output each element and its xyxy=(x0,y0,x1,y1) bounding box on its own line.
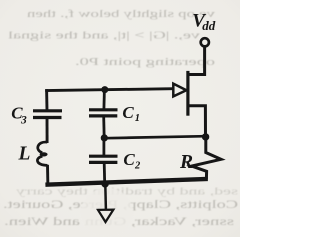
svg-text:C: C xyxy=(122,103,134,122)
node dot top (gate / C1 / C3) xyxy=(101,86,108,93)
wire L to bottom xyxy=(46,165,49,187)
wire bottom (ground net) xyxy=(45,179,207,185)
svg-text:operating point P0.: operating point P0. xyxy=(75,56,215,68)
svg-text:3: 3 xyxy=(20,114,27,126)
capacitor C1 xyxy=(89,110,118,116)
node dot bottom (ground net) xyxy=(101,180,108,187)
svg-text:C: C xyxy=(123,150,135,169)
svg-text:L: L xyxy=(18,143,31,164)
resistor R xyxy=(192,140,221,180)
svg-text:ve op slightly below f,. then: ve op slightly below f,. then xyxy=(26,8,215,20)
node dot right (source / R) xyxy=(202,133,209,140)
Vdd terminal circle xyxy=(201,38,209,46)
wire left branch upper xyxy=(45,89,48,110)
wire source lead xyxy=(188,106,206,137)
capacitor C3 xyxy=(33,111,62,118)
svg-text:ve,. |G| > |t|, and the signal: ve,. |G| > |t|, and the signal xyxy=(8,30,200,42)
svg-text:R: R xyxy=(179,152,193,173)
wire C1 bottom lead xyxy=(102,117,105,139)
wire C1 top lead xyxy=(103,90,106,110)
ground xyxy=(98,210,113,222)
transistor Q1 channel bar xyxy=(186,71,189,116)
wire drain lead xyxy=(188,47,205,75)
wire C2 top lead xyxy=(103,138,106,155)
capacitor C2 xyxy=(89,156,118,162)
inductor L xyxy=(37,142,47,165)
node A dot (C1/C2/source net) xyxy=(101,134,108,141)
svg-text:2: 2 xyxy=(134,161,141,172)
wire ground stem xyxy=(104,184,107,210)
wire top (gate net) xyxy=(45,89,174,91)
bleed-through ghost text (mirrored) xyxy=(3,8,238,228)
transistor Q1 gate arrow xyxy=(173,84,186,97)
svg-text:dd: dd xyxy=(202,18,216,33)
wire C2 bottom lead xyxy=(103,163,106,184)
svg-text:sed, and by tradition they car: sed, and by tradition they carry xyxy=(15,186,238,198)
circuit ink xyxy=(33,38,221,222)
svg-text:1: 1 xyxy=(135,113,140,124)
wire C3 to L xyxy=(46,118,49,143)
wire middle (node A to source) xyxy=(104,136,205,138)
